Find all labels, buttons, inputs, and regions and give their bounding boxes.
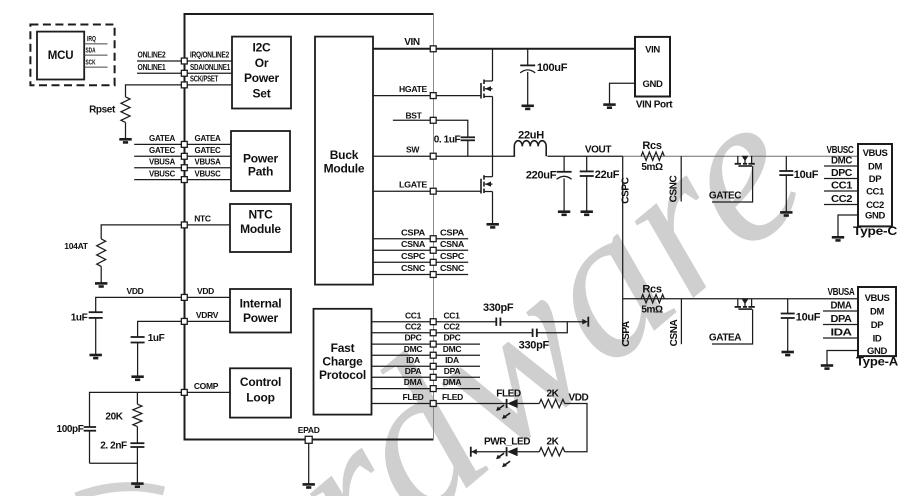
wire DMA from Fast Charge Protocol [371,388,430,390]
capacitor C12 330pF [532,329,534,337]
svg-text:Control: Control [240,375,281,389]
capacitor C4 2.2nF [130,442,144,444]
wire DMC stub outside [436,354,480,356]
wire LGATE [373,190,481,192]
svg-text:DP: DP [871,320,884,331]
pin NTC [181,222,187,228]
block I2C Or Power Set [232,37,291,109]
svg-text:SCK: SCK [86,57,96,66]
svg-text:Fast: Fast [331,341,355,355]
svg-text:NTC: NTC [194,214,211,224]
MCU U2 box [37,32,84,80]
transistor Q3 Type-C pass PMOS [737,156,739,164]
svg-text:CC1: CC1 [831,181,853,192]
pin EPAD [305,436,312,443]
chip U1 boundary [185,14,434,440]
svg-text:GATEA: GATEA [709,333,741,344]
resistor Rcs 5mOhm (Type-C) [641,152,664,160]
ground 104AT [95,283,107,286]
wire VBUSC outside stub [134,179,181,181]
wire DPA stub [823,324,858,326]
wire VDD [96,297,181,311]
wire GATEA outside stub [134,143,181,145]
svg-text:SDA: SDA [86,45,96,54]
block Internal Power [230,289,291,333]
block Buck Module [315,37,373,285]
wire C6 to ground [527,72,529,106]
wire R4 to VDD corner [565,404,587,452]
ground Type-C [832,237,844,240]
wire comp bottom node [90,447,138,484]
svg-text:VBUSC: VBUSC [149,168,175,178]
wire D1 to R4 [518,403,540,405]
svg-text:22uF: 22uF [595,169,620,181]
svg-text:COMP: COMP [194,381,219,391]
svg-text:2K: 2K [547,437,560,448]
svg-text:VBUS: VBUS [865,293,890,304]
block Fast Charge Protocol [314,309,372,415]
wire CSNC from Buck [373,274,430,276]
pin CSNA [430,247,436,253]
wire BST [393,120,468,137]
svg-text:Loop: Loop [246,390,275,404]
wire C10 to ground [787,318,789,352]
svg-text:Type-C: Type-C [853,226,897,238]
wire pin IRQ/ONLINE2 to I2C block [188,60,233,62]
svg-text:I2C: I2C [252,41,271,55]
svg-text:DPC: DPC [404,333,421,343]
svg-text:MCU: MCU [48,50,74,62]
pin IDA [430,363,436,369]
svg-text:Charge: Charge [322,354,363,368]
svg-text:IDA: IDA [831,328,852,339]
wire DPC stub [824,178,858,180]
svg-text:CC2: CC2 [831,194,853,205]
svg-text:Module: Module [240,222,281,236]
wire Q2 drain to SW [492,156,494,177]
pin GATEA [181,141,187,147]
pin DPC [430,341,436,347]
svg-text:20K: 20K [105,411,123,422]
wire FLED from Fast Charge Protocol [371,403,430,405]
wire DPA from Fast Charge Protocol [371,376,430,378]
pin SDA/ONLINE1 [181,70,187,76]
terminal CC1 [587,317,589,327]
pin CSPA [430,236,436,242]
svg-text:Rcs: Rcs [642,140,661,152]
svg-text:0. 1uF: 0. 1uF [434,135,461,146]
svg-text:Rpset: Rpset [89,104,116,115]
wire Q2 source to ground [492,192,494,225]
wire CSPC stub outside [436,261,468,263]
wire ONLINE1 [137,72,181,74]
wire VBUSA outside stub [134,167,181,169]
svg-text:VBUSA: VBUSA [195,157,221,167]
wire EPAD to ground [308,443,310,484]
wire pin SDA/ONLINE1 to I2C block [188,72,233,74]
svg-text:GATEA: GATEA [195,133,221,143]
wire NTC to 104AT [101,225,181,239]
svg-text:BST: BST [405,110,422,120]
wire VOUT rail to Type-C [623,155,858,157]
svg-text:CC2: CC2 [443,321,460,331]
transistor Q4 Type-A pass PMOS [737,299,739,307]
wire VOUT rail [547,155,622,157]
ground VIN Port [603,105,615,108]
svg-text:VOUT: VOUT [585,144,611,155]
wire CC2 stub (Type-C) [824,204,858,206]
capacitor C7 220uF [563,156,565,172]
wire C8 to ground [586,176,588,212]
svg-text:Or: Or [255,56,269,70]
svg-text:DMA: DMA [443,377,462,387]
wire CSNA stub outside [436,249,468,251]
MCU dashed boundary [30,25,114,86]
pin GATEC [181,153,187,159]
svg-text:DM: DM [870,307,884,318]
ground C7 [558,212,570,215]
pin SCK/PSET [181,82,187,88]
svg-text:VDD: VDD [197,286,214,296]
svg-text:5mΩ: 5mΩ [641,162,663,173]
capacitor C1 1uF [89,311,103,313]
pin VIN [430,46,436,52]
svg-text:Internal: Internal [240,297,282,311]
wire C9 to ground [785,175,787,212]
capacitor C10 10uF (Type-A) [787,299,789,314]
wire SW [373,155,515,157]
wire CSNA sense line [680,299,682,345]
wire CC1 to C11 [436,321,496,323]
connector J3 Type-A box [858,287,896,356]
MCU pin IRQ stub [84,43,107,45]
svg-text:CSNC: CSNC [440,263,464,273]
svg-text:2. 2nF: 2. 2nF [100,441,127,452]
wire CC2 from Fast Charge Protocol [371,332,430,334]
svg-text:CC2: CC2 [866,200,884,211]
wire C5 to SW [467,140,469,156]
svg-text:FLED: FLED [403,392,424,402]
transistor Q2 LGATE NMOS [480,179,482,194]
pin COMP [181,389,187,395]
svg-text:DMC: DMC [443,344,462,354]
svg-text:ID: ID [873,334,882,345]
pin HGATE [430,93,436,99]
svg-text:VIN: VIN [404,37,420,48]
resistor R2 104AT [97,239,106,267]
connector J2 Type-C box [858,144,892,226]
svg-text:SW: SW [406,145,420,155]
wire D2 to terminal [471,451,506,453]
pin DMA [430,386,436,392]
block Power Path [231,131,290,191]
svg-text:DMC: DMC [831,156,852,167]
svg-text:Path: Path [248,165,273,179]
pin VDRV [181,318,187,324]
wire C3 to bottom node [89,431,91,464]
wire CSPC/CSPA sense line [622,156,624,344]
svg-text:HGATE: HGATE [399,84,428,94]
svg-text:DPC: DPC [443,333,460,343]
wire Rpset to ground [125,122,127,139]
wire DPC from Fast Charge Protocol [371,343,430,345]
terminal PWR_LED [470,447,472,457]
wire CC2 to C12 [436,332,532,334]
svg-text:CSPC: CSPC [440,251,464,261]
ground C1 [90,355,102,358]
pin DPA [430,374,436,380]
svg-text:Type-A: Type-A [856,357,898,369]
pin VBUSA [181,165,187,171]
resistor R4 2K [539,399,564,407]
wire pin VBUSC to Power Path [188,179,232,181]
wire SCK/PSET to Rpset [126,85,182,97]
svg-text:Set: Set [252,86,270,100]
wire GATEC gate [712,166,753,202]
pin CSNC [430,272,436,278]
pin CSPC [430,259,436,265]
wire pin SCK/PSET to I2C block [188,84,233,86]
pin IRQ/ONLINE2 [181,58,187,64]
wire 104AT to ground [100,266,102,283]
svg-text:IDA: IDA [406,355,420,365]
resistor Rpset [121,97,130,123]
capacitor C3 100pF [84,426,96,428]
wire Type-C GND [838,215,858,237]
LED D2 PWR_LED [506,447,508,456]
wire HGATE [373,95,481,97]
svg-text:CSPA: CSPA [440,227,464,237]
svg-text:Protocol: Protocol [319,368,366,382]
svg-text:GATEA: GATEA [149,133,175,143]
svg-text:GND: GND [643,79,663,90]
svg-text:DPA: DPA [831,314,852,325]
svg-text:CC1: CC1 [443,310,460,320]
ground C6 [522,106,534,109]
resistor R3 20K [133,404,142,426]
LED D1 FLED [506,399,508,408]
capacitor C11 330pF [495,318,497,326]
svg-text:ONLINE2: ONLINE2 [138,50,166,60]
MCU pin SDA stub [84,54,107,56]
svg-text:CSPA: CSPA [401,227,425,237]
svg-text:DMA: DMA [831,301,852,312]
resistor Rcs 5mOhm (Type-A) [641,295,664,303]
svg-text:DMC: DMC [404,344,423,354]
wire pin GATEA to Power Path [188,143,232,145]
transistor Q1 HGATE NMOS [480,83,482,99]
wire CC1 from Fast Charge Protocol [371,321,430,323]
wire C1 to ground [95,318,97,355]
svg-text:GATEC: GATEC [149,145,175,155]
svg-text:Module: Module [324,161,365,175]
wire CSPA from Buck [373,238,430,240]
svg-text:VBUSC: VBUSC [195,168,221,178]
wire CSPA stub outside [436,238,468,240]
wire VDRV [138,321,182,336]
svg-text:10uF: 10uF [796,312,821,324]
svg-text:VIN: VIN [645,44,660,55]
wire CSNC stub outside [436,274,468,276]
wire CSPC from Buck [373,261,430,263]
svg-text:LGATE: LGATE [399,179,428,189]
wire IDA stub outside [436,365,480,367]
block Control Loop [230,368,291,417]
svg-text:DPA: DPA [444,366,461,376]
MCU pin SCK stub [84,66,107,68]
svg-text:GATEC: GATEC [709,191,741,202]
svg-text:NTC: NTC [248,207,273,221]
svg-text:DMA: DMA [404,377,423,387]
wire C7 to ground [563,178,565,211]
wire Q1 drain to VIN [492,49,494,81]
svg-text:FLED: FLED [496,388,521,399]
svg-text:GATEC: GATEC [195,145,221,155]
resistor R5 2K [539,448,564,456]
wire C2 to ground [137,343,139,377]
wire COMP to 20K [136,392,138,404]
pin CC1 [430,319,436,325]
svg-text:PWR_LED: PWR_LED [484,437,530,448]
wire GATEA gate [712,309,753,344]
svg-text:100uF: 100uF [537,62,568,74]
svg-text:CSNA: CSNA [440,239,464,249]
svg-text:IDA: IDA [445,355,459,365]
chip right edge [433,14,435,440]
pin FLED [430,401,436,407]
svg-text:Power: Power [243,151,279,165]
svg-text:VBUSA: VBUSA [149,157,175,167]
svg-text:1uF: 1uF [71,313,88,324]
svg-text:VDD: VDD [568,393,588,404]
svg-text:FLED: FLED [442,392,463,402]
ground Rpset [119,139,131,142]
wire R5 to D2 [518,451,540,453]
svg-text:DP: DP [869,174,882,185]
svg-text:5mΩ: 5mΩ [641,305,663,316]
wire CSNC sense line [680,156,682,201]
wire VIN rail [373,48,635,50]
svg-text:CC1: CC1 [405,310,422,320]
ground C8 [581,212,593,215]
pin DMC [430,352,436,358]
svg-text:330pF: 330pF [519,340,550,352]
svg-text:CC1: CC1 [866,186,885,197]
pin BST [430,117,436,123]
wire Q1 source to SW [492,97,494,157]
ground EPAD [303,484,315,487]
wire DPC stub outside [436,343,480,345]
ground Type-A [821,366,833,369]
wire DMC from Fast Charge Protocol [371,354,430,356]
svg-text:CSPC: CSPC [621,177,632,203]
svg-text:EPAD: EPAD [298,425,320,435]
wire VBUSA rail [623,298,858,300]
svg-text:100pF: 100pF [57,424,84,435]
svg-text:DPC: DPC [831,168,852,179]
svg-text:1uF: 1uF [148,333,165,344]
svg-text:Power: Power [244,71,280,85]
ground comp network [131,484,143,487]
svg-text:10uF: 10uF [794,169,819,181]
wire C12 junction to CC1 line [537,322,568,333]
svg-text:SCK/PSET: SCK/PSET [190,74,219,84]
svg-text:Buck: Buck [330,148,359,162]
wire pin COMP to Control Loop [188,391,231,393]
ground C10 [782,352,794,355]
svg-text:CSNA: CSNA [669,319,680,346]
wire Type-A GND [827,351,858,366]
svg-text:CC2: CC2 [405,321,422,331]
wire DMA stub [823,310,858,312]
svg-text:VIN Port: VIN Port [636,100,673,111]
wire CC1 stub (Type-C) [824,190,858,192]
svg-text:CSNC: CSNC [401,263,425,273]
svg-text:DPA: DPA [405,366,422,376]
pin VBUSC [181,177,187,183]
wire pin VDD to Internal Power [188,296,231,298]
pin LGATE [430,188,436,194]
svg-text:GND: GND [867,346,887,357]
ground C2 [131,377,143,380]
wire ONLINE2 [137,60,181,62]
wire IDA from Fast Charge Protocol [371,365,430,367]
wire VIN Port GND [610,83,636,104]
svg-text:Power: Power [243,311,279,325]
svg-text:VBUSA: VBUSA [828,287,855,298]
wire CSNA from Buck [373,249,430,251]
capacitor C8 22uF [586,156,588,171]
ground Q2 source [487,224,499,227]
wire FLED to D1 [436,403,506,405]
svg-text:GND: GND [865,210,885,221]
svg-text:DM: DM [868,161,882,172]
svg-text:22uH: 22uH [518,130,544,142]
svg-text:CSNC: CSNC [669,175,680,202]
wire pin VDRV to Internal Power [188,320,231,322]
svg-text:VDD: VDD [126,286,143,296]
capacitor C2 1uF [131,336,145,338]
wire IDA stub [823,337,858,339]
wire DMA stub outside [436,388,480,390]
inductor L1 22uH [514,141,546,157]
svg-text:220uF: 220uF [526,169,557,181]
svg-text:2K: 2K [547,388,560,399]
pin SW [430,153,436,159]
svg-text:VBUS: VBUS [863,148,888,159]
wire GATEC outside stub [134,155,181,157]
ground C9 [780,212,792,215]
block NTC Module [230,204,291,252]
wire pin NTC to NTC Module [188,224,231,226]
wire DPA stub outside [436,376,480,378]
wire pin GATEC to Power Path [188,155,232,157]
svg-text:VDRV: VDRV [196,310,219,320]
wire pin VBUSA to Power Path [188,167,232,169]
wire DMC stub [824,165,858,167]
svg-text:104AT: 104AT [64,241,88,251]
svg-text:CSNA: CSNA [401,239,425,249]
wire 20K to 2.2nF [136,427,138,444]
pin CC2 [430,330,436,336]
capacitor C6 100uF [527,49,529,66]
svg-text:IRQ/ONLINE2: IRQ/ONLINE2 [190,50,229,60]
svg-text:ONLINE1: ONLINE1 [138,62,166,72]
wire COMP [90,392,182,426]
svg-text:CSPC: CSPC [401,251,425,261]
capacitor C5 0.1uF [461,136,475,138]
svg-text:IRQ: IRQ [87,34,96,43]
